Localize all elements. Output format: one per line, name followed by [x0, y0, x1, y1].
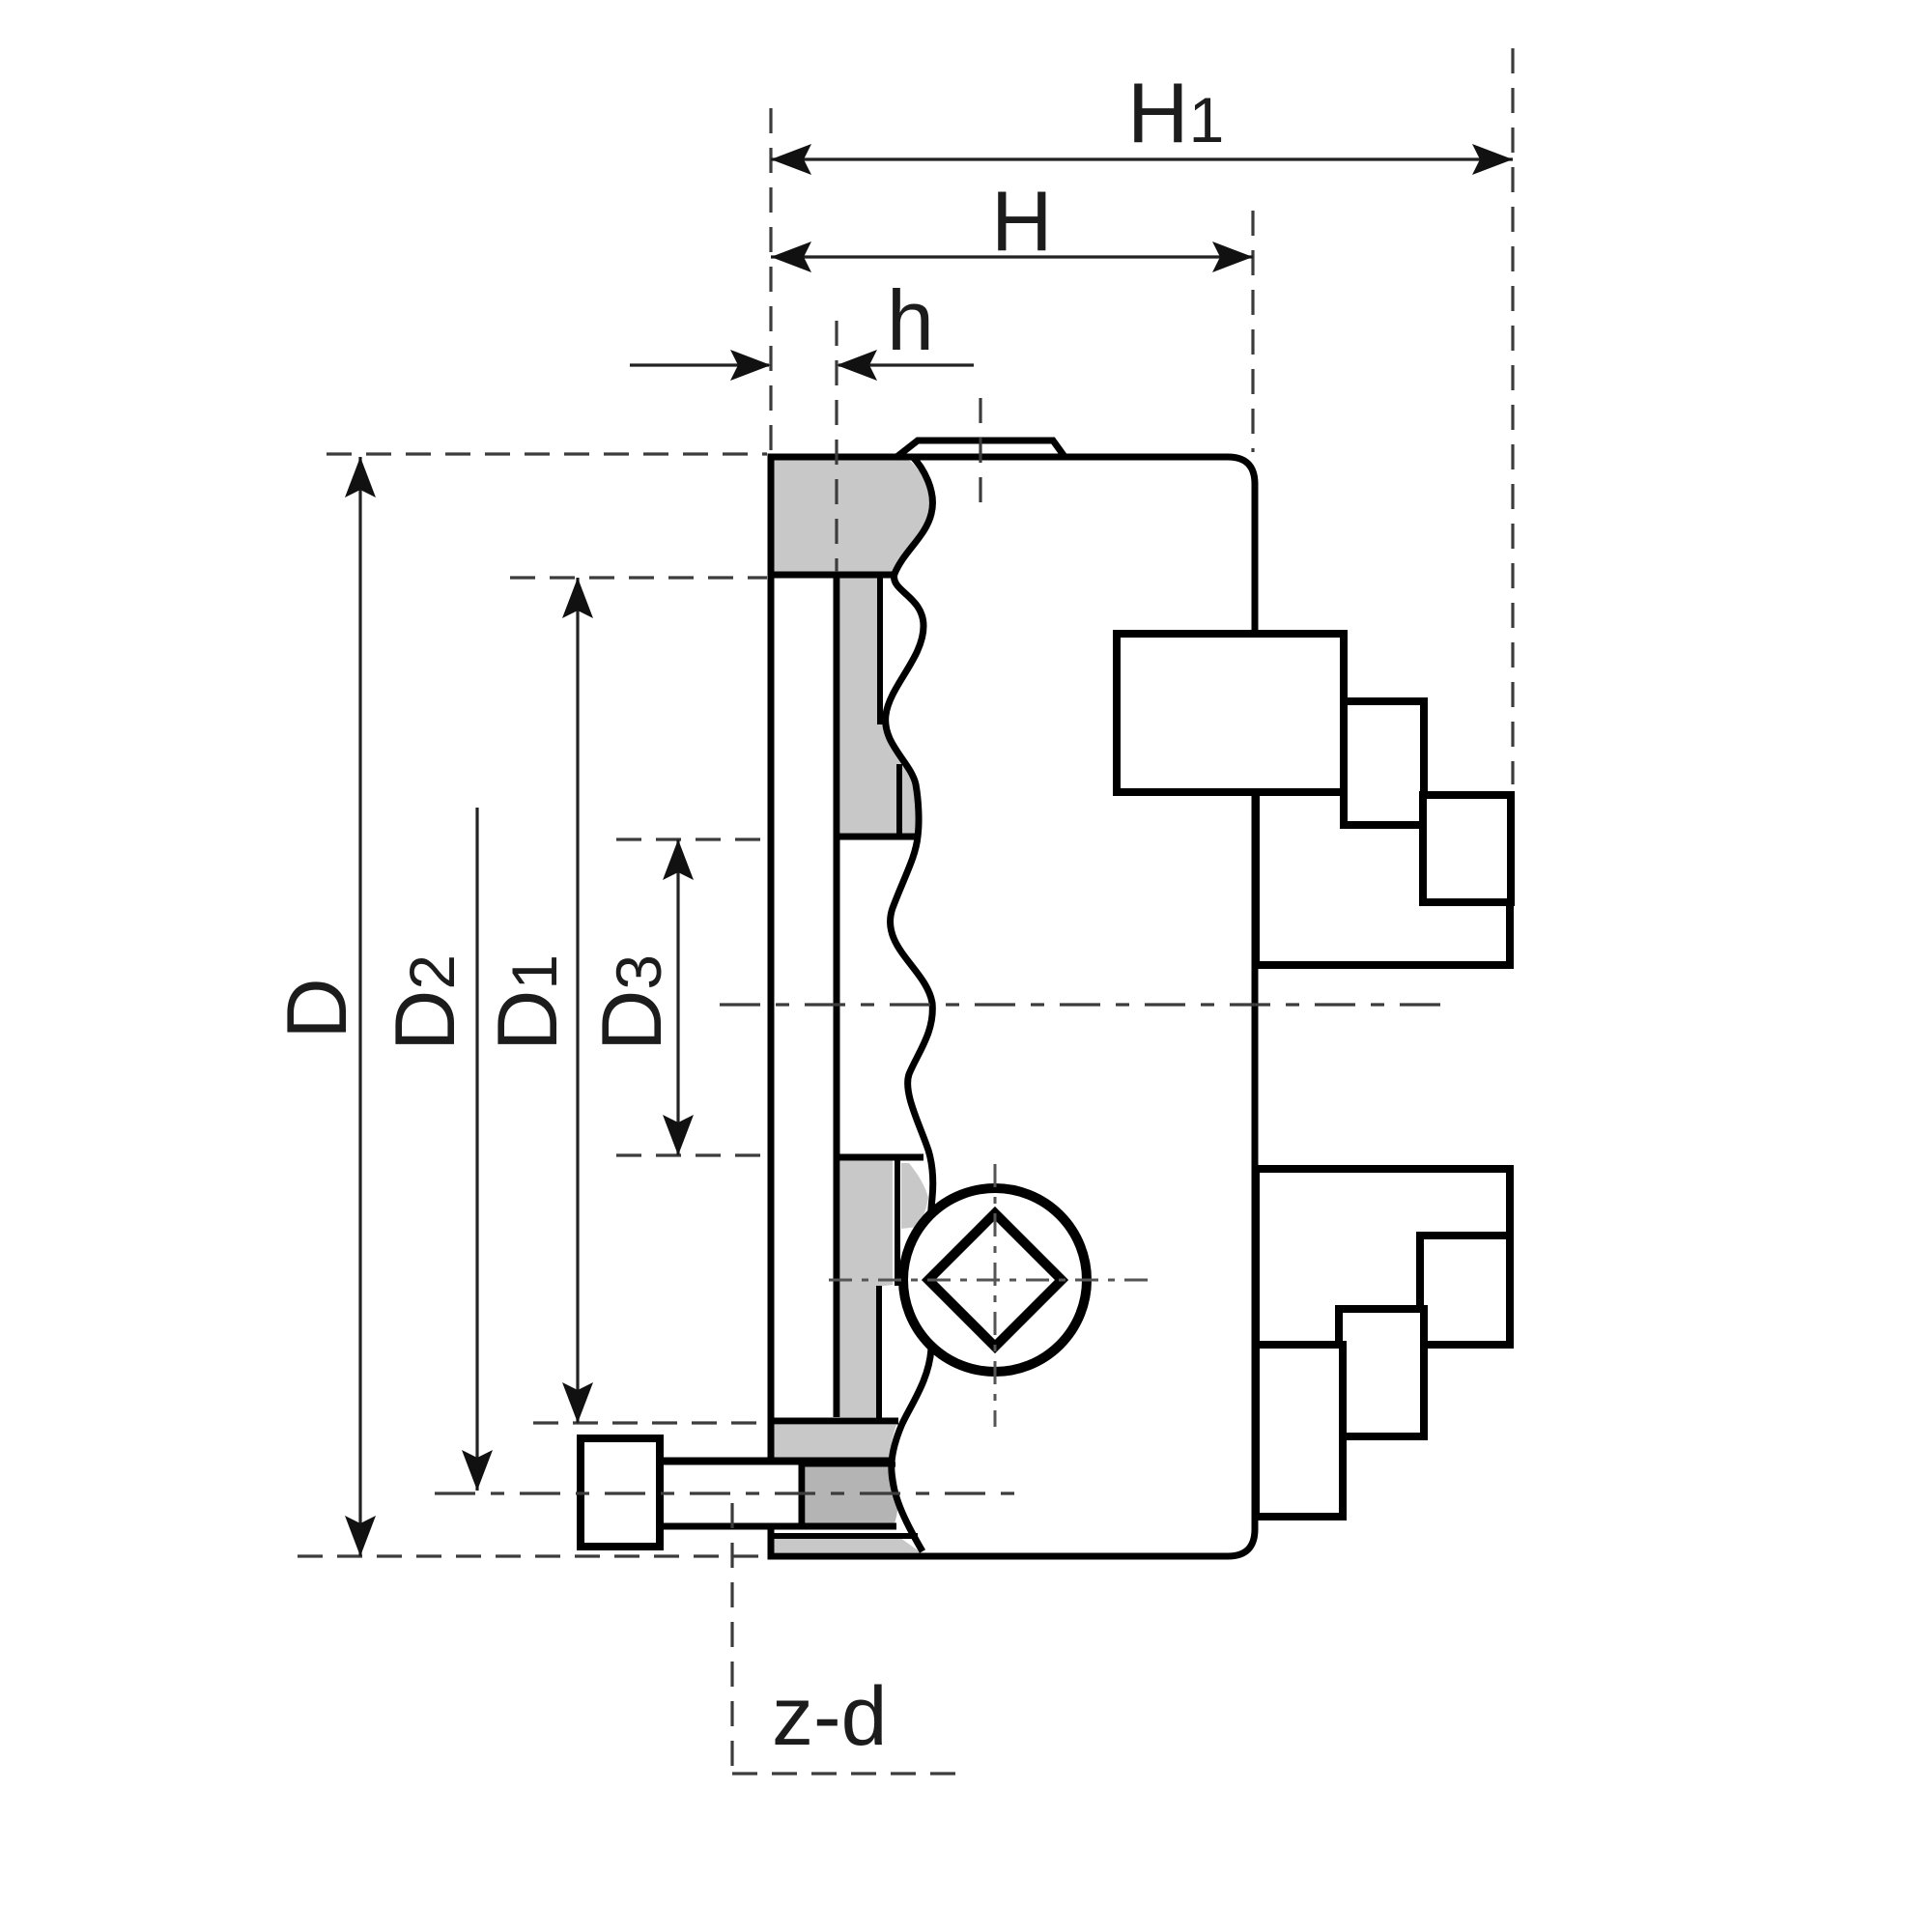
dimension h arrow right — [837, 350, 877, 381]
dimension D3 arrow top — [663, 839, 694, 880]
chuck key square — [928, 1213, 1062, 1347]
dimension D2 arrow bottom — [462, 1450, 493, 1491]
dimension D arrow top — [345, 457, 376, 497]
section fill: bolt flange band — [771, 1425, 896, 1458]
socket crosshair vertical — [994, 1164, 997, 1427]
section fill: lower guideway slot — [840, 1159, 893, 1417]
section fill: top rim — [771, 460, 931, 572]
section fill: bottom rim strip — [771, 1538, 921, 1552]
z-d leader vertical — [730, 1503, 733, 1774]
extension line body back (x1297) — [1251, 211, 1254, 452]
top jaw base plate — [1256, 792, 1510, 965]
dimension H arrow right — [1212, 241, 1253, 272]
bottom jaw step 1 block — [1256, 1345, 1343, 1517]
thread band top line — [802, 1463, 895, 1467]
svg-text:H: H — [991, 173, 1053, 269]
dimension H1 line — [771, 157, 1513, 160]
lower slot bottom line — [771, 1418, 898, 1425]
z-d leader horizontal — [732, 1772, 956, 1775]
plate back line — [834, 575, 840, 1417]
top jaw step 3 block — [1423, 795, 1511, 902]
top locating boss — [895, 440, 1065, 458]
chuck body outline — [771, 457, 1255, 1556]
extension line jaw face (x1566) — [1511, 48, 1514, 784]
extension line plate back (x866) — [835, 321, 838, 572]
bottom jaw step 3 block — [1420, 1236, 1510, 1345]
svg-text:h: h — [887, 272, 934, 368]
bottom jaw base plate — [1256, 1169, 1510, 1345]
extension line D3 bottom — [616, 1153, 773, 1156]
dimension D1 line — [576, 578, 579, 1423]
chuck key socket circle — [903, 1188, 1087, 1372]
break wave line — [886, 455, 933, 1551]
svg-text:D: D — [269, 978, 364, 1039]
top jaw step 1 block — [1117, 634, 1344, 792]
section fill: upper guideway slot — [840, 577, 919, 837]
dimension H1 arrow left — [771, 144, 811, 175]
bottom strip top line — [771, 1533, 918, 1539]
extension line D3 top — [616, 838, 768, 840]
dimension D3 arrow bottom — [663, 1115, 694, 1155]
dimension D arrow bottom — [345, 1516, 376, 1556]
extension line D top — [327, 452, 767, 455]
dimension h arrow left — [730, 350, 771, 381]
dimension H1 arrow right — [1472, 144, 1513, 175]
mounting bolt shank — [660, 1462, 802, 1526]
lower slot right line upper — [895, 1160, 900, 1286]
svg-text:z-d: z-d — [772, 1670, 887, 1763]
dimension D1 arrow bottom — [562, 1382, 593, 1423]
socket crosshair horizontal — [829, 1279, 1151, 1282]
bolt hole bottom line — [660, 1523, 896, 1530]
dimension D2 line — [475, 808, 478, 1491]
dimension D line — [358, 457, 361, 1556]
bolt hole top line — [660, 1458, 891, 1464]
mounting bolt head — [581, 1438, 660, 1547]
extension line face (x798) — [769, 108, 772, 452]
extension line D1 top — [510, 576, 767, 579]
main centerline — [720, 1003, 1443, 1006]
extension line D1 bottom — [533, 1421, 761, 1424]
lower slot right line lower — [876, 1286, 882, 1418]
rim bottom line — [771, 572, 896, 579]
bottom jaw step 2 block — [1339, 1309, 1424, 1436]
dimension H line — [771, 255, 1253, 258]
top jaw step 2 block — [1344, 701, 1424, 825]
lower slot top line — [837, 1154, 923, 1161]
upper slot widened right line — [896, 764, 902, 835]
dimension h tail right — [838, 363, 974, 366]
section fill: bolt thread band — [806, 1464, 898, 1523]
bolt centerline — [435, 1492, 1026, 1494]
extension line boss center (x1015) — [979, 398, 981, 512]
section fill: lower slot sliver — [901, 1163, 928, 1229]
extension line D bottom — [298, 1554, 765, 1557]
upper slot bottom line — [837, 834, 916, 840]
upper slot right line — [877, 577, 883, 724]
dimension D1 arrow top — [562, 578, 593, 618]
dimension D3 line — [676, 839, 679, 1155]
dimension h tail left — [630, 363, 769, 366]
dimension H arrow left — [771, 241, 811, 272]
